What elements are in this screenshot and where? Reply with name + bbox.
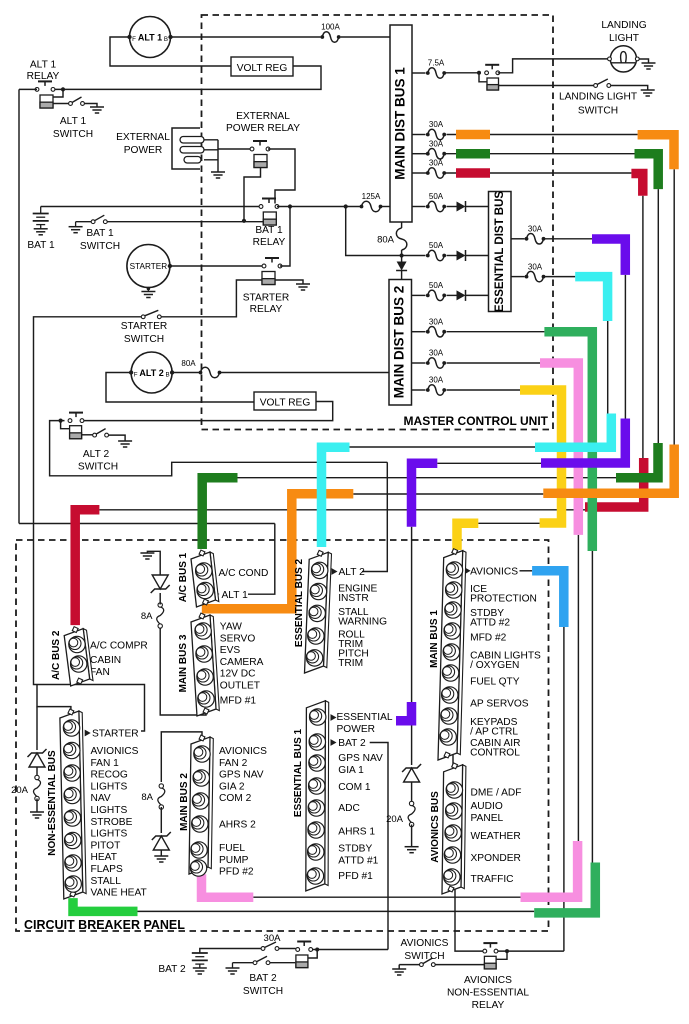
svg-text:RELAY: RELAY — [27, 71, 60, 82]
fuse 80A (vertical) — [396, 228, 407, 250]
wire seagreen drop — [591, 551, 593, 863]
svg-text:BAT 1: BAT 1 — [86, 228, 114, 239]
switch BAT 1 SWITCH — [75, 222, 77, 227]
svg-text:MAIN BUS 3: MAIN BUS 3 — [178, 634, 189, 692]
ground (chain 2) — [154, 855, 168, 857]
svg-text:ATTD #1: ATTD #1 — [338, 855, 378, 866]
wire green field row thin — [238, 477, 617, 479]
svg-text:CONTROL: CONTROL — [470, 748, 520, 759]
svg-text:INSTR: INSTR — [338, 593, 369, 604]
svg-text:POWER RELAY: POWER RELAY — [226, 123, 300, 134]
fuse 30A (MDB1 row 3) — [412, 172, 427, 174]
wire 30A to BAT2 relay — [279, 948, 296, 950]
wire ALT2 relay feed from ALT2 breaker row — [50, 421, 388, 476]
diode D3 (vertical) — [397, 262, 407, 271]
relay STARTER RELAY — [271, 258, 273, 263]
svg-text:RECOG: RECOG — [91, 770, 128, 781]
svg-text:OUTLET: OUTLET — [220, 681, 260, 692]
wire AVIONICS BUS to relay — [455, 889, 483, 951]
wire pink row thin — [253, 896, 520, 898]
wire starter relay coil to ground — [275, 280, 303, 284]
wire blue drop to avionics relay — [563, 627, 565, 951]
svg-text:125A: 125A — [362, 192, 381, 201]
highlight red elbow pre (bottom right) — [585, 458, 644, 507]
relay ALT 1 RELAY — [44, 81, 46, 86]
fuse 30A (MDB2 row 1) — [412, 331, 426, 333]
wire orange row thin — [353, 493, 543, 495]
svg-text:CABIN: CABIN — [90, 655, 121, 666]
svg-text:BAT 2: BAT 2 — [249, 973, 277, 984]
wire ALT1-F to VOLT REG — [110, 37, 231, 66]
fuse 30A (MDB1 row 1) — [412, 134, 426, 136]
svg-text:ADC: ADC — [338, 803, 360, 814]
wire avionics relay coil branch — [496, 951, 507, 959]
highlight yellow riser — [520, 390, 562, 523]
zener Z4 (chain 4) — [36, 707, 38, 750]
wire 30A row1 thin — [447, 134, 638, 136]
svg-text:MASTER CONTROL UNIT: MASTER CONTROL UNIT — [404, 414, 549, 428]
svg-text:ALT 2: ALT 2 — [139, 368, 163, 378]
svg-text:TRAFFIC: TRAFFIC — [471, 874, 514, 885]
bus MAIN DIST BUS 1 — [390, 25, 412, 222]
ground (chain 4) — [30, 811, 44, 813]
svg-text:AVIONICS: AVIONICS — [470, 567, 518, 578]
svg-text:30A: 30A — [429, 139, 444, 148]
wire BAT2 relay coil branch — [308, 950, 317, 959]
svg-text:FUEL QTY: FUEL QTY — [470, 677, 520, 688]
wire MDB2 row1 thin — [447, 331, 545, 333]
relay BAT 1 RELAY — [268, 199, 270, 204]
bus ESSENTIAL DIST BUS — [489, 192, 512, 312]
wire landing relay coil to switch — [499, 85, 595, 87]
svg-text:AVIONICS: AVIONICS — [91, 746, 139, 757]
svg-text:STROBE: STROBE — [91, 817, 133, 828]
svg-text:F: F — [134, 372, 138, 379]
svg-text:WEATHER: WEATHER — [471, 831, 521, 842]
highlight purple elbow (bottom right) — [541, 419, 625, 464]
svg-text:STALL: STALL — [91, 876, 122, 887]
fuse 50A (row 2) — [428, 250, 444, 261]
svg-text:/ AP CTRL: / AP CTRL — [470, 727, 518, 738]
svg-text:30A: 30A — [264, 933, 282, 944]
highlight purple elbow (top) — [592, 239, 625, 275]
wire VOLT REG 2 loop to ALT2 relay — [84, 402, 333, 421]
wire ALT2-F to VOLT REG 2 — [106, 373, 254, 403]
svg-text:BAT 1: BAT 1 — [255, 225, 283, 236]
highlight green elbow (row2 right) — [635, 154, 659, 189]
ground (ALT 2 switch) — [118, 440, 132, 442]
wire external power prongs — [204, 140, 218, 172]
fuse 30A (ESS row 2) — [511, 276, 525, 278]
fuse 20A (chain 4) — [36, 767, 38, 777]
wire chain2 to ground — [160, 850, 162, 856]
svg-text:8A: 8A — [141, 611, 153, 622]
wire ALT1 field rail (bottom) — [19, 523, 275, 525]
highlight cyan elbow (bottom left) — [322, 447, 350, 547]
highlight yellow elbow (left) — [457, 523, 478, 550]
svg-text:LANDING: LANDING — [601, 20, 646, 31]
highlight red bar (row3 left) — [456, 168, 490, 178]
lamp LANDING LIGHT — [610, 46, 636, 72]
svg-text:AUDIO: AUDIO — [471, 801, 503, 812]
wire VOLT REG to ALT1 relay — [55, 66, 322, 89]
fuse 30A (MDB1 row 2) — [412, 153, 427, 155]
fuse 50A (row 3) — [412, 294, 426, 296]
svg-text:AVIONICS BUS: AVIONICS BUS — [430, 791, 441, 863]
svg-text:FLAPS: FLAPS — [91, 864, 123, 875]
wire 7.5A to landing relay — [444, 72, 481, 74]
relay EXTERNAL POWER RELAY — [259, 141, 261, 146]
highlight pink elbow (right) — [521, 841, 578, 897]
svg-text:RELAY: RELAY — [250, 304, 283, 315]
svg-text:20A: 20A — [386, 814, 404, 825]
wire landing relay coil branch — [479, 73, 487, 82]
wire starter to relay — [170, 265, 264, 267]
svg-text:MFD #2: MFD #2 — [470, 633, 507, 644]
svg-text:YAW: YAW — [220, 622, 242, 633]
wire ALT1 field rail (left) — [18, 89, 20, 523]
highlight cyan elbow (top) — [575, 277, 607, 321]
svg-text:HEAT: HEAT — [91, 852, 117, 863]
wire 30A row2 thin — [445, 153, 635, 155]
wire 125A to MAIN DIST BUS 1 — [381, 206, 390, 208]
dashed enclosure CIRCUIT BREAKER PANEL — [16, 540, 549, 931]
ground (landing light switch) — [641, 89, 655, 91]
svg-text:STARTER: STARTER — [130, 262, 168, 271]
highlight pink riser — [540, 363, 578, 535]
svg-text:LIGHTS: LIGHTS — [91, 805, 128, 816]
fuse 80A (ALT 2) — [201, 367, 220, 378]
fuse 7.5A — [428, 68, 444, 79]
svg-text:B: B — [166, 372, 170, 379]
highlight red elbow (bottom left) — [75, 510, 99, 625]
fuse 50A (row 1) — [412, 206, 426, 208]
switch STARTER SWITCH — [141, 315, 145, 319]
svg-text:TRIM: TRIM — [338, 658, 363, 669]
svg-text:FAN 1: FAN 1 — [91, 758, 120, 769]
svg-text:SWITCH: SWITCH — [80, 241, 120, 252]
wire diode to MDB2 — [401, 271, 403, 280]
highlight cyan elbow (bottom right) — [535, 414, 611, 448]
fuse 20A (chain 3) — [411, 782, 413, 803]
svg-text:ESSENTIAL: ESSENTIAL — [337, 712, 393, 723]
svg-text:BAT 2: BAT 2 — [338, 738, 366, 749]
wire 30A row3 thin — [445, 172, 631, 174]
wire cyan drop — [607, 321, 609, 414]
svg-text:ESSENTIAL DIST BUS: ESSENTIAL DIST BUS — [494, 191, 506, 313]
wire ALT2 breaker riser (ESS BUS 2) — [362, 462, 387, 571]
highlight orange elbow (bottom right) — [543, 445, 674, 494]
bus MAIN DIST BUS 2 — [389, 280, 412, 406]
wire EP relay output to BAT1 relay — [268, 149, 295, 204]
wire yellow row thin — [478, 522, 539, 524]
svg-text:GIA 1: GIA 1 — [338, 765, 364, 776]
wire 100A to MAIN DIST BUS 1 — [341, 36, 390, 38]
wire landing switch to ground — [611, 86, 648, 91]
wire ALT1 breaker riser (A/C BUS 1) — [248, 524, 275, 595]
svg-text:EVS: EVS — [220, 645, 241, 656]
svg-text:PANEL: PANEL — [471, 813, 504, 824]
wire ALT1 relay branch to coil — [53, 89, 63, 97]
svg-text:FUEL: FUEL — [219, 843, 245, 854]
wire BAT1 switch to relay coil — [107, 221, 263, 223]
svg-text:CIRCUIT BREAKER PANEL: CIRCUIT BREAKER PANEL — [24, 918, 185, 932]
svg-text:SWITCH: SWITCH — [53, 129, 93, 140]
svg-text:PROTECTION: PROTECTION — [470, 594, 537, 605]
wire MAIN BUS 2 top loop — [161, 732, 202, 782]
wire purple drop — [624, 275, 626, 419]
highlight green bar (row2 left) — [456, 149, 490, 159]
wire 80A to diode — [401, 250, 403, 262]
bus AVIONICS BUS — [461, 765, 466, 889]
svg-text:50A: 50A — [429, 281, 444, 290]
wire MAIN BUS 3 bottom loop — [160, 628, 206, 715]
switch ALT 2 SWITCH — [93, 433, 97, 437]
svg-text:30A: 30A — [429, 376, 444, 385]
wire starter switch to NON-ESS STARTER breaker — [34, 317, 145, 731]
wire 80A to MAIN DIST BUS 2 — [220, 372, 389, 374]
svg-text:BAT 1: BAT 1 — [27, 240, 55, 251]
svg-text:LIGHTS: LIGHTS — [91, 781, 128, 792]
svg-text:B: B — [164, 36, 168, 43]
wire purple drop to ESS POWER — [411, 527, 413, 702]
svg-text:SWITCH: SWITCH — [243, 986, 283, 997]
svg-text:30A: 30A — [429, 349, 444, 358]
fuse 8A (chain 2) — [158, 788, 165, 805]
wire ALT1 relay left to left rail — [19, 88, 37, 90]
wire avionics switch to coil — [435, 964, 484, 966]
svg-text:LANDING LIGHT: LANDING LIGHT — [559, 92, 637, 103]
diode D2 — [447, 255, 457, 257]
bus ESSENTIAL BUS 2 — [324, 552, 332, 667]
wire BAT1 relay to 125A fuse — [277, 206, 361, 208]
fuse 30A (ESS row 1) — [511, 238, 525, 240]
wire ALT1 relay coil to switch — [53, 103, 70, 105]
svg-text:RELAY: RELAY — [472, 1000, 505, 1011]
fuse 8A (chain 1) — [157, 607, 164, 624]
highlight blue elbow (AVIONICS) — [532, 571, 564, 627]
wire green drop — [657, 189, 659, 443]
svg-text:30A: 30A — [528, 225, 543, 234]
alternator ALT 2 — [131, 352, 172, 393]
wire purple row thin — [437, 462, 541, 464]
ground (landing light) — [642, 62, 656, 64]
svg-text:MAIN BUS 1: MAIN BUS 1 — [429, 610, 440, 668]
wire red drop — [642, 196, 644, 458]
svg-text:COM 2: COM 2 — [219, 793, 252, 804]
terminal ALT 1 — [214, 591, 220, 598]
fuse 30A (MDB2 row 2) — [412, 362, 426, 364]
wire orange drop — [673, 169, 675, 444]
svg-text:ALT 2: ALT 2 — [339, 567, 366, 578]
alternator ALT 1 — [130, 17, 171, 58]
svg-text:VOLT REG: VOLT REG — [260, 398, 311, 409]
svg-text:ESSENTIAL BUS 1: ESSENTIAL BUS 1 — [293, 728, 304, 817]
svg-text:VANE HEAT: VANE HEAT — [91, 888, 147, 899]
wire MDB1 to MDB2 feed — [401, 222, 403, 228]
wire lamp to ground — [639, 59, 649, 63]
bus NON-ESSENTIAL BUS — [79, 711, 86, 894]
relay BAT 2 RELAY — [303, 942, 305, 947]
bus MAIN BUS 1 — [457, 551, 466, 755]
svg-text:GPS NAV: GPS NAV — [219, 770, 264, 781]
wire NON-ESS feed stub — [37, 685, 71, 711]
wire prong to EP relay — [218, 148, 252, 150]
svg-text:NON-ESSENTIAL: NON-ESSENTIAL — [447, 988, 529, 999]
svg-text:8A: 8A — [141, 792, 153, 803]
svg-text:LIGHT: LIGHT — [609, 33, 639, 44]
highlight green elbow (bottom left) — [202, 478, 237, 549]
svg-text:STARTER: STARTER — [121, 321, 168, 332]
wire starter relay coil to switch — [161, 280, 262, 317]
terminal ALT 2 (ESS BUS 2) — [332, 568, 338, 575]
svg-text:AP SERVOS: AP SERVOS — [470, 699, 529, 710]
wire BAT2 battery top — [200, 949, 261, 954]
svg-text:MAIN BUS 2: MAIN BUS 2 — [179, 773, 190, 831]
switch LANDING LIGHT SWITCH — [594, 84, 598, 88]
svg-text:PFD #2: PFD #2 — [219, 867, 254, 878]
voltage regulator VOLT REG (ALT 2) — [254, 392, 316, 410]
wire avionics relay to blue feed — [498, 950, 564, 952]
svg-text:PFD #1: PFD #1 — [338, 871, 373, 882]
switch AVIONICS SWITCH — [398, 965, 400, 969]
highlight orange run (bottom left) — [202, 494, 353, 609]
highlight orange bar (row1 left) — [456, 130, 490, 140]
terminal BAT 2 (ESS BUS 1) — [331, 739, 337, 746]
wire ALT2 relay coil branch — [61, 421, 70, 429]
svg-text:/ OXYGEN: / OXYGEN — [470, 660, 519, 671]
svg-text:SWITCH: SWITCH — [578, 106, 618, 117]
voltage regulator VOLT REG (ALT 1) — [231, 57, 293, 76]
diode D1 — [447, 206, 457, 208]
zener Z1 (chain 1) — [159, 593, 161, 605]
relay AVIONICS NON-ESSENTIAL RELAY — [489, 943, 491, 948]
svg-text:PUMP: PUMP — [219, 855, 249, 866]
svg-text:ATTD #2: ATTD #2 — [470, 618, 510, 629]
battery BAT 2 — [192, 952, 208, 954]
diode D4 — [447, 294, 457, 296]
wire chain3 to ground — [411, 825, 413, 847]
svg-text:GPS NAV: GPS NAV — [338, 753, 383, 764]
zener Z2 (chain 2) — [160, 807, 162, 833]
wire BAT1 battery to relay — [41, 206, 261, 208]
svg-text:STDBY: STDBY — [338, 844, 372, 855]
svg-text:MFD #1: MFD #1 — [220, 696, 257, 707]
ground (chain 3) — [405, 846, 419, 848]
wire landing relay to lamp — [498, 59, 610, 73]
terminal AVIONICS (MAIN BUS 1) — [465, 567, 471, 574]
starter motor STARTER — [127, 245, 170, 288]
svg-text:ALT 1: ALT 1 — [60, 116, 87, 127]
svg-text:NAV: NAV — [91, 793, 111, 804]
svg-text:EXTERNAL: EXTERNAL — [116, 132, 170, 143]
wire MDB2 bypass — [346, 207, 426, 256]
wire chain1 to ground — [147, 551, 160, 575]
ground (external power) — [211, 171, 225, 173]
relay ALT 2 RELAY — [75, 413, 77, 418]
wire ALT1-B to 100A fuse — [171, 36, 321, 38]
svg-text:AHRS 2: AHRS 2 — [219, 820, 256, 831]
svg-text:LIGHTS: LIGHTS — [91, 829, 128, 840]
fuse 100A — [322, 32, 338, 43]
wire starter relay to BAT feed — [280, 207, 290, 267]
svg-text:VOLT REG: VOLT REG — [237, 63, 288, 74]
zener Z3 (chain 3) — [411, 724, 413, 765]
connector EXTERNAL POWER — [172, 128, 200, 169]
wire ESS row2 thin — [545, 276, 576, 278]
svg-text:SERVO: SERVO — [220, 633, 256, 644]
highlight red elbow (row3 right) — [631, 174, 642, 196]
relay LANDING LIGHT RELAY — [491, 65, 493, 70]
svg-text:STARTER: STARTER — [243, 293, 290, 304]
svg-text:MAIN DIST BUS 1: MAIN DIST BUS 1 — [393, 67, 408, 180]
fuse 30A (MDB2 row 3) — [412, 389, 426, 391]
ground (starter motor) — [147, 288, 149, 292]
svg-text:WARNING: WARNING — [338, 617, 387, 628]
wire cyan row thin — [350, 446, 536, 448]
svg-text:A/C BUS 2: A/C BUS 2 — [51, 630, 62, 680]
svg-text:30A: 30A — [429, 317, 444, 326]
svg-text:50A: 50A — [429, 241, 444, 250]
wire EP relay coil to BAT1 switch line — [244, 168, 261, 221]
ground (starter relay) — [296, 283, 310, 285]
wire BAT2 relay to ESS BUS 1 — [313, 949, 388, 951]
svg-text:AVIONICS: AVIONICS — [219, 746, 267, 757]
svg-text:XPONDER: XPONDER — [471, 853, 521, 864]
svg-text:AVIONICS: AVIONICS — [464, 975, 512, 986]
wire MAIN BUS 2 bottom pin — [197, 869, 199, 875]
svg-text:AHRS 1: AHRS 1 — [338, 827, 375, 838]
terminal ESSENTIAL POWER — [331, 714, 337, 721]
svg-text:30A: 30A — [429, 120, 444, 129]
svg-text:A/C COMPR: A/C COMPR — [90, 641, 148, 652]
svg-text:80A: 80A — [377, 235, 395, 246]
wire MDB2 row3 thin — [447, 389, 521, 391]
wire ESS row1 thin — [545, 238, 593, 240]
breaker 30A (BAT 2) — [261, 947, 265, 951]
highlight kelly green elbow (left) — [73, 898, 138, 911]
wire ALT2 relay coil to switch — [82, 434, 93, 436]
svg-text:50A: 50A — [429, 192, 444, 201]
dashed enclosure MASTER CONTROL UNIT — [202, 15, 554, 430]
ground (ALT 1 switch) — [90, 106, 104, 108]
wire MDB1 to 7.5A fuse — [412, 72, 426, 74]
bus A/C BUS 1 — [210, 552, 219, 602]
highlight purple elbow (bottom left) — [412, 463, 438, 526]
highlight seagreen elbow (right) — [534, 863, 595, 913]
svg-text:A/C COND: A/C COND — [219, 568, 269, 579]
svg-text:COM 1: COM 1 — [338, 782, 371, 793]
wire pink drop — [577, 535, 579, 841]
wire green row thin — [138, 910, 535, 912]
svg-text:PITOT: PITOT — [91, 840, 121, 851]
svg-text:BAT 2: BAT 2 — [158, 964, 186, 975]
svg-text:STARTER: STARTER — [92, 729, 139, 740]
highlight orange elbow (row1 right) — [638, 135, 674, 170]
highlight pink elbow (left) — [202, 874, 254, 897]
highlight purple stub (ESSENTIAL POWER) — [396, 702, 412, 721]
svg-text:ALT 2: ALT 2 — [83, 449, 110, 460]
svg-text:100A: 100A — [321, 23, 340, 32]
svg-text:RELAY: RELAY — [253, 237, 286, 248]
svg-text:POWER: POWER — [337, 724, 376, 735]
svg-text:DME / ADF: DME / ADF — [471, 788, 522, 799]
svg-text:20A: 20A — [11, 785, 29, 796]
svg-text:SWITCH: SWITCH — [78, 462, 118, 473]
terminal STARTER — [85, 730, 91, 737]
bus ESSENTIAL BUS 1 — [325, 701, 329, 886]
svg-text:30A: 30A — [429, 159, 444, 168]
